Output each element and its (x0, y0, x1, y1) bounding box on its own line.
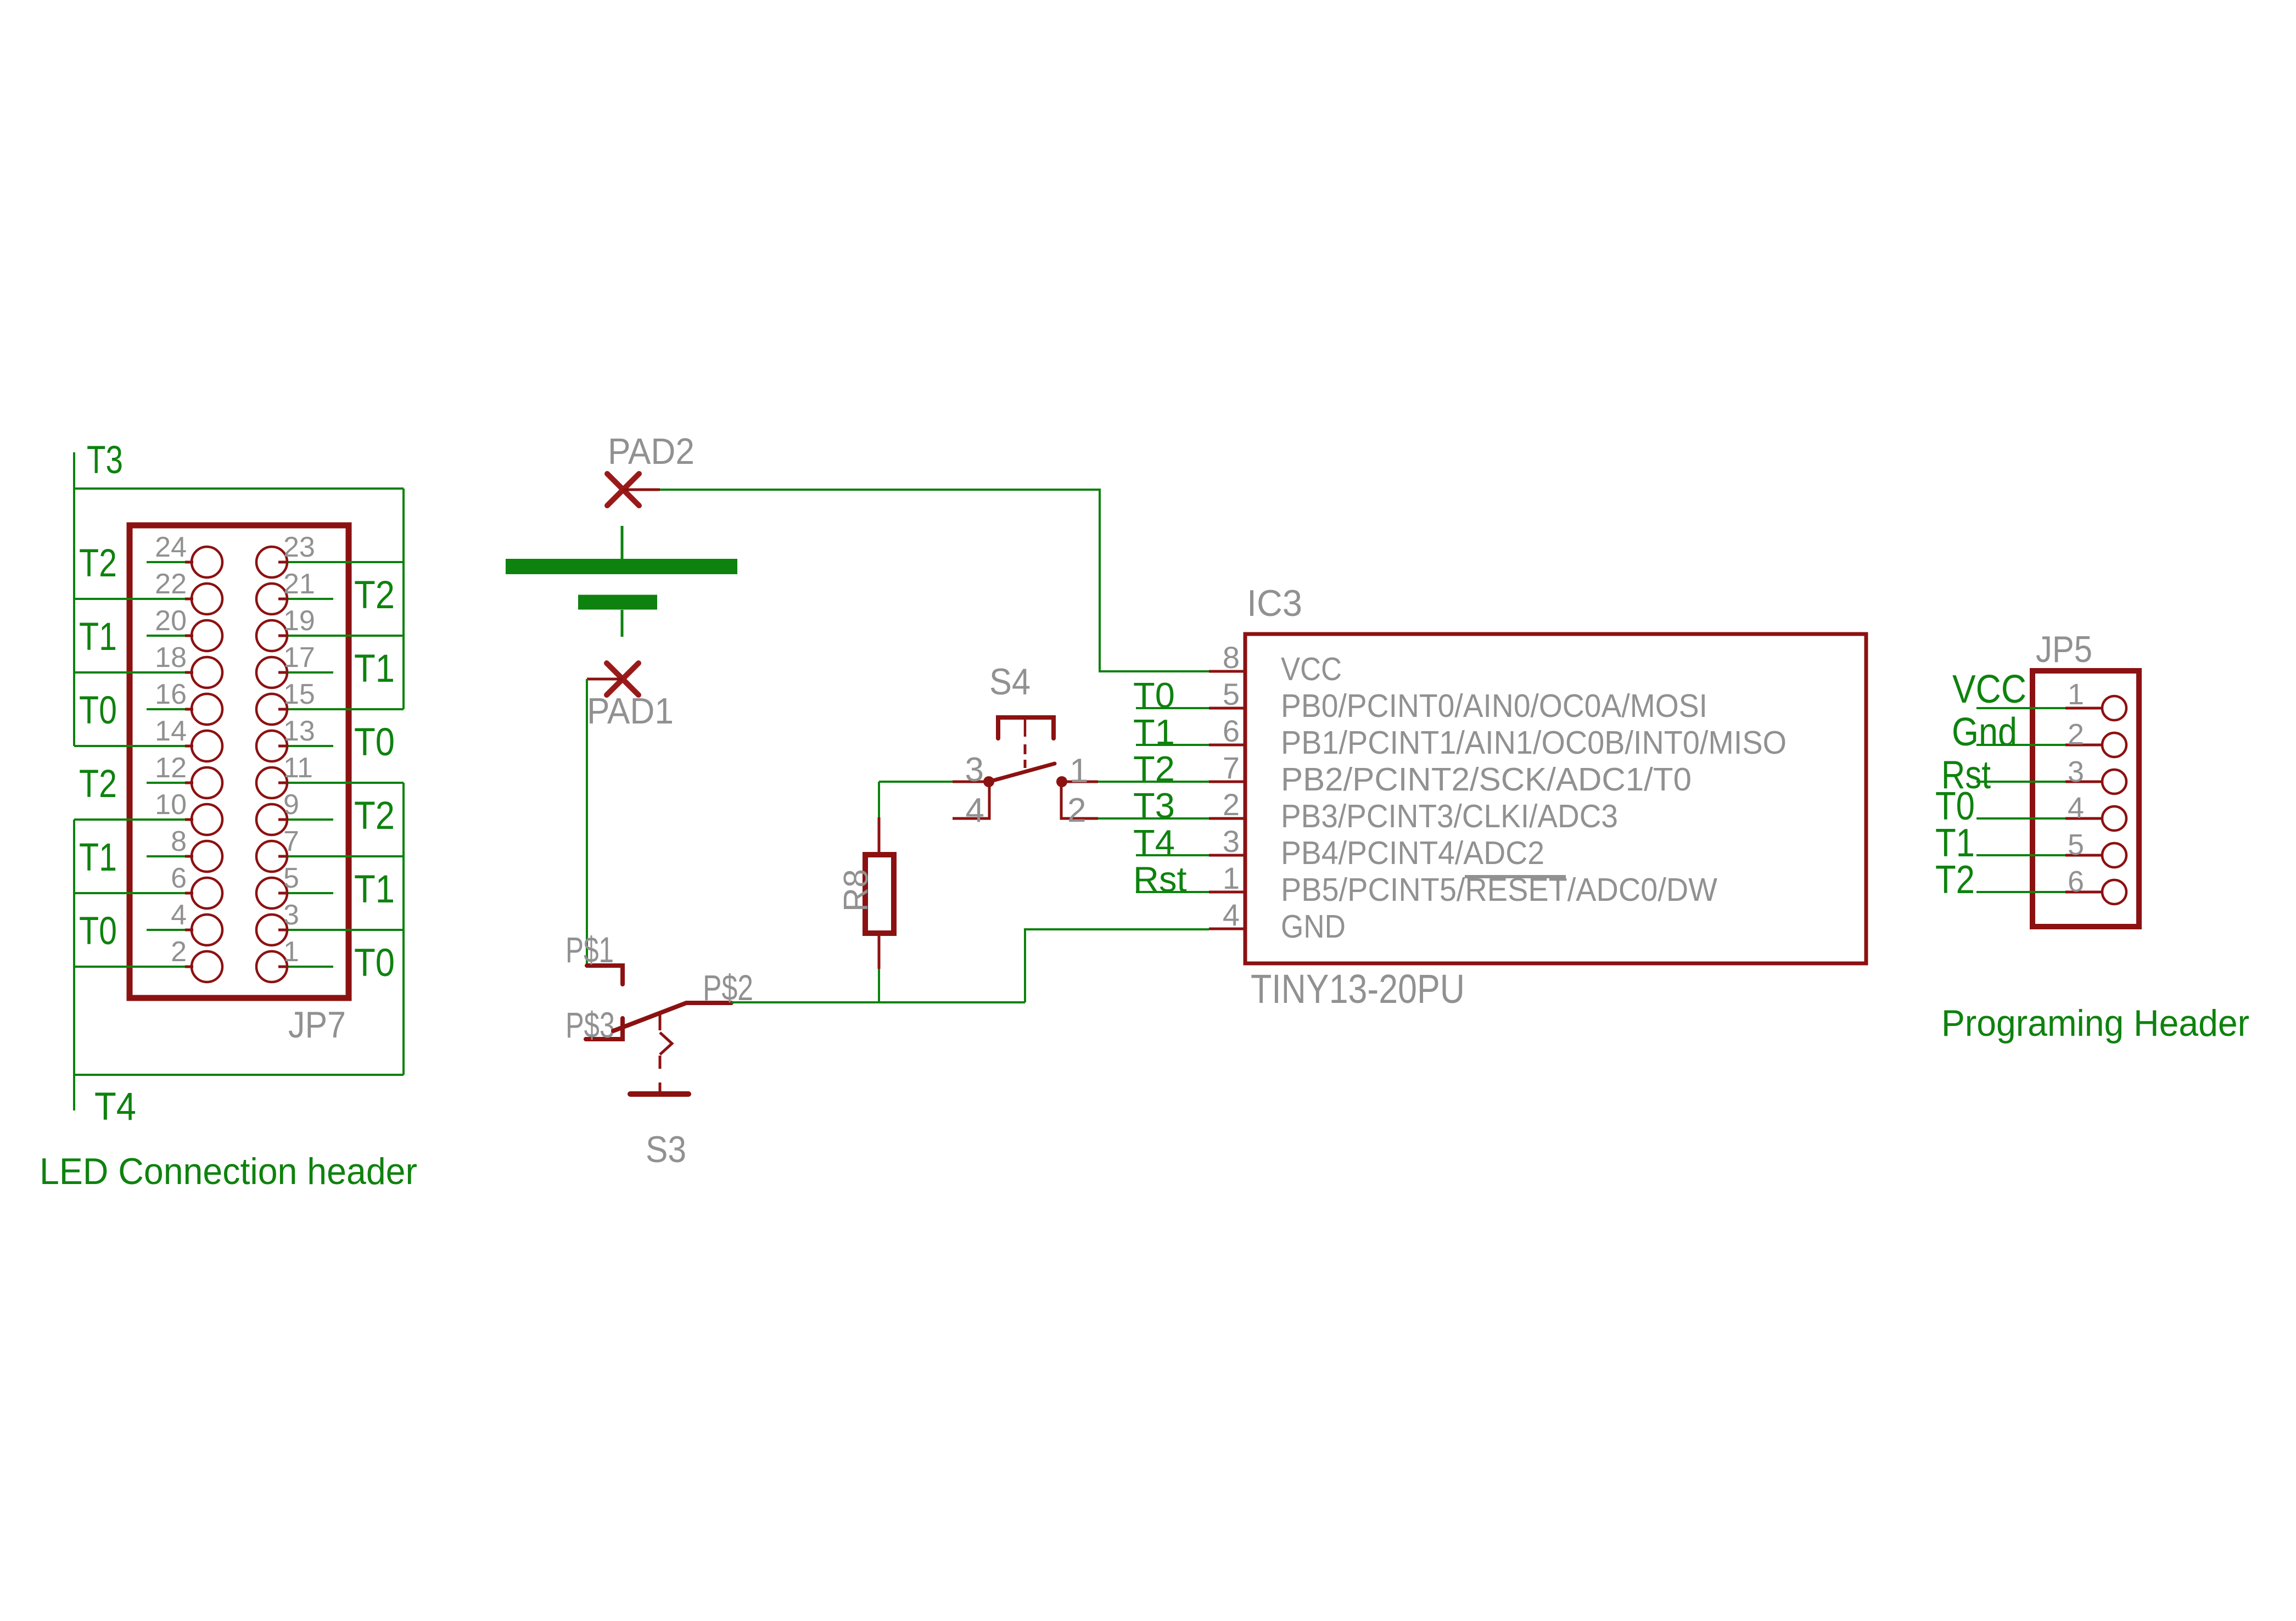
svg-text:1: 1 (283, 936, 299, 968)
svg-text:T2: T2 (354, 794, 395, 838)
battery B1 bottom lead (621, 610, 624, 637)
svg-text:4: 4 (171, 899, 187, 931)
node T1 label right (354, 868, 395, 911)
node VCC label (1952, 668, 2026, 711)
pin number 10 (155, 789, 187, 821)
pin 20 circle (192, 620, 222, 651)
pin number 2 (2068, 718, 2084, 751)
node T1 label (1133, 712, 1175, 752)
pin 3 lead (278, 929, 286, 932)
svg-text:T3: T3 (87, 439, 123, 482)
node T0 label left (79, 910, 117, 953)
node T0 label left (79, 689, 117, 732)
wire bottom horizontal T4 net (74, 1075, 404, 1110)
pin number 11 (283, 752, 313, 784)
svg-text:PB2/PCINT2/SCK/ADC1/T0: PB2/PCINT2/SCK/ADC1/T0 (1281, 761, 1692, 798)
wire P$2 to GND net (731, 1001, 1025, 1003)
node T1 label (1935, 821, 1975, 865)
pin number 3 (1223, 824, 1240, 859)
svg-text:1: 1 (1069, 752, 1088, 790)
wire (74, 745, 185, 747)
pin 11 lead (278, 782, 286, 784)
svg-text:T4: T4 (1133, 822, 1175, 862)
wire (286, 708, 404, 710)
svg-text:T1: T1 (1133, 712, 1175, 752)
resistor R8 top lead (878, 817, 881, 857)
connector JP5 pin 3 lead (2065, 781, 2103, 783)
svg-text:S3: S3 (646, 1129, 686, 1170)
svg-text:T1: T1 (354, 647, 395, 691)
wire T2 net S4 pin1 to IC3 pin 7 (1098, 781, 1209, 783)
wire stub (147, 782, 185, 784)
svg-text:18: 18 (155, 642, 187, 674)
switch S4 pivot node 3 (983, 776, 994, 787)
pin 7 lead (278, 855, 286, 858)
connector JP5 pin 1 lead (2065, 707, 2103, 710)
connector JP5 pin 6 circle (2102, 880, 2126, 904)
svg-text:16: 16 (155, 678, 187, 710)
label IC3 (1247, 582, 1302, 624)
svg-text:20: 20 (155, 605, 187, 637)
wire (286, 635, 404, 637)
pin number 15 (283, 678, 315, 710)
svg-text:S4: S4 (989, 661, 1031, 703)
wire (286, 929, 404, 931)
RESET overline (1465, 875, 1566, 878)
svg-text:13: 13 (283, 715, 315, 747)
wire (286, 782, 404, 784)
svg-text:LED Connection header: LED Connection header (40, 1151, 417, 1192)
node T0 label right (354, 941, 395, 985)
pin 15 lead (278, 708, 286, 711)
pin number 16 (155, 678, 187, 710)
pin number 5 (2068, 828, 2084, 861)
svg-text:10: 10 (155, 789, 187, 821)
connector JP5 pin 2 circle (2102, 733, 2126, 757)
wire T1 net (1976, 854, 2065, 856)
pin number 1 (283, 936, 299, 968)
pin number 5 (283, 862, 299, 894)
pin 21 circle (256, 584, 287, 614)
label S4 (989, 661, 1031, 703)
svg-text:PB0/PCINT0/AIN0/OC0A/MOSI: PB0/PCINT0/AIN0/OC0A/MOSI (1281, 688, 1707, 724)
wire stub (286, 966, 333, 968)
wire right lower bus (402, 783, 405, 1075)
pin number 2 (171, 936, 187, 968)
wire (74, 671, 185, 674)
pin 17 lead (278, 671, 286, 674)
pin 12 circle (192, 767, 222, 798)
svg-text:GND: GND (1281, 908, 1346, 945)
wire T2 net (1976, 891, 2065, 893)
pin 9 lead (278, 818, 286, 821)
pin 22 circle (192, 584, 222, 614)
connector JP5 pin 5 circle (2102, 843, 2126, 867)
svg-text:T2: T2 (1935, 858, 1975, 902)
pin number 5 (1223, 677, 1240, 711)
pin 13 circle (256, 731, 287, 761)
wire stub (147, 855, 185, 857)
pin 14 lead (185, 745, 193, 748)
pin 10 lead (185, 818, 193, 821)
node T4 (94, 1085, 136, 1129)
svg-text:6: 6 (2068, 865, 2084, 898)
ic IC3 body (1245, 634, 1866, 963)
switch S3 pin P$3 lead (586, 1018, 623, 1039)
label P$3 (565, 1005, 615, 1045)
pin 19 circle (256, 620, 287, 651)
wire T1 net stub (1136, 744, 1209, 746)
svg-text:6: 6 (1223, 714, 1240, 748)
pin 18 lead (185, 671, 193, 674)
label R8 (837, 869, 875, 912)
switch S3 pin P$1 lead (587, 966, 623, 984)
pin number 4 (966, 792, 984, 829)
pin 9 circle (256, 804, 287, 835)
wire (74, 966, 185, 968)
svg-text:2: 2 (2068, 718, 2084, 751)
label JP7 (288, 1004, 346, 1046)
pin 19 lead (278, 635, 286, 637)
pin number 4 (2068, 792, 2084, 824)
node T0 label (1133, 675, 1175, 715)
pin 20 lead (185, 635, 193, 637)
pin number 20 (155, 605, 187, 637)
wire (74, 818, 185, 821)
pin 6 circle (192, 878, 222, 908)
svg-text:7: 7 (1223, 750, 1240, 785)
ic IC3 pin 7 lead (1209, 781, 1245, 783)
svg-text:23: 23 (283, 531, 315, 563)
pin number 19 (283, 605, 315, 637)
wire T0 net (1976, 817, 2065, 820)
svg-text:T1: T1 (79, 836, 117, 879)
pad PAD1 (607, 663, 639, 695)
pin 3 circle (256, 915, 287, 945)
svg-text:5: 5 (283, 862, 299, 894)
wire VCC net PAD2 to IC3 pin 8 (660, 490, 1209, 671)
svg-text:T4: T4 (94, 1085, 136, 1129)
pin 15 circle (256, 694, 287, 725)
switch S4 arm (989, 764, 1055, 782)
svg-text:PAD1: PAD1 (587, 691, 674, 732)
wire T0 net stub (1136, 707, 1209, 709)
wire stub (147, 635, 185, 637)
switch S3 base bar (630, 1091, 688, 1097)
svg-text:15: 15 (283, 678, 315, 710)
label P$1 (565, 929, 614, 970)
svg-text:TINY13-20PU: TINY13-20PU (1251, 966, 1465, 1012)
node Rst label (1941, 753, 1991, 797)
svg-text:2: 2 (1223, 787, 1240, 822)
svg-text:P$1: P$1 (565, 929, 614, 970)
pin number 9 (283, 789, 299, 821)
connector JP5 (2032, 671, 2139, 927)
wire stub (147, 708, 185, 710)
svg-text:4: 4 (966, 792, 984, 829)
ic IC3 pin 4 lead (1209, 928, 1245, 930)
pin number 2 (1067, 792, 1086, 829)
wire left lower bus (73, 820, 75, 1075)
pin 4 circle (192, 915, 222, 945)
svg-text:JP7: JP7 (288, 1004, 346, 1046)
wire Rst net stub (1136, 891, 1209, 893)
pin number 1 (1223, 861, 1240, 895)
pin number 6 (2068, 865, 2084, 898)
pin number 3 (2068, 755, 2084, 788)
node T2 label right (354, 794, 395, 838)
svg-text:T2: T2 (354, 574, 395, 617)
pin number 13 (283, 715, 315, 747)
pin number 3 (283, 899, 299, 931)
pin 12 lead (185, 782, 193, 784)
wire left upper bus (73, 489, 75, 746)
pad PAD2 (607, 474, 639, 506)
wire stub (286, 745, 333, 747)
pin 11 circle (256, 767, 287, 798)
node T0 label right (354, 721, 395, 764)
switch S3 actuator dashes (660, 1014, 672, 1094)
svg-text:Programing Header: Programing Header (1941, 1002, 2249, 1044)
pin 10 circle (192, 804, 222, 835)
svg-text:T2: T2 (1133, 749, 1175, 789)
svg-text:PB3/PCINT3/CLKI/ADC3: PB3/PCINT3/CLKI/ADC3 (1281, 798, 1618, 834)
battery B1 positive plate (506, 559, 737, 574)
pin number 7 (1223, 750, 1240, 785)
svg-text:3: 3 (1223, 824, 1240, 859)
pin number 3 (965, 751, 984, 789)
pin number 6 (171, 862, 187, 894)
node Rst label (1133, 859, 1187, 899)
svg-text:VCC: VCC (1952, 668, 2026, 711)
node T3 label (1133, 786, 1175, 826)
node T1 label left (79, 836, 117, 879)
svg-text:T0: T0 (354, 941, 395, 985)
svg-text:T0: T0 (1133, 675, 1175, 715)
label LED Connection header (40, 1151, 417, 1192)
wire VCC net (1976, 707, 2065, 709)
pin number 1 (1069, 752, 1088, 790)
wire T4 net stub (1136, 854, 1209, 856)
connector JP5 pin 2 lead (2065, 744, 2103, 747)
ic IC3 pin 3 lead (1209, 854, 1245, 857)
connector JP5 pin 1 circle (2102, 696, 2126, 720)
pin number 4 (1223, 898, 1240, 932)
svg-text:Gnd: Gnd (1952, 710, 2017, 754)
pin 8 circle (192, 841, 222, 872)
pin 8 lead (185, 855, 193, 858)
switch S4 pin 1 lead (1065, 781, 1098, 783)
wire T3 net S4 pin2 to IC3 pin 2 (1098, 817, 1209, 820)
label Programing Header (1941, 1002, 2249, 1044)
pin number 17 (283, 642, 315, 674)
svg-text:3: 3 (283, 899, 299, 931)
wire (286, 561, 404, 563)
pin number 12 (155, 752, 187, 784)
pin name PB3/PCINT3/CLKI/ADC3 (1281, 798, 1618, 834)
svg-text:T0: T0 (79, 689, 117, 732)
switch S4 pin 3 lead (953, 781, 985, 783)
switch S4 pin 2 lead (1061, 785, 1098, 818)
pin name GND (1281, 908, 1346, 945)
svg-text:PAD2: PAD2 (608, 431, 695, 472)
pin 4 lead (185, 929, 193, 932)
svg-text:11: 11 (283, 752, 313, 784)
pin 17 circle (256, 657, 287, 688)
connector JP7 (130, 525, 349, 998)
node T0 label (1935, 784, 1975, 828)
wire (74, 892, 185, 894)
pin 1 circle (256, 951, 287, 982)
pin 5 lead (278, 892, 286, 895)
svg-text:PB4/PCINT4/ADC2: PB4/PCINT4/ADC2 (1281, 835, 1544, 871)
pin number 24 (155, 531, 187, 563)
svg-text:7: 7 (283, 826, 299, 857)
pin number 21 (283, 568, 315, 600)
svg-text:4: 4 (1223, 898, 1240, 932)
svg-text:T0: T0 (79, 910, 117, 953)
wire R8 to GND net (878, 969, 880, 1003)
switch S4 button bracket (998, 717, 1054, 738)
label S3 (646, 1129, 686, 1170)
svg-text:T0: T0 (354, 721, 395, 764)
svg-text:8: 8 (171, 826, 187, 857)
pin name PB2/PCINT2/SCK/ADC1/T0 (1281, 761, 1692, 798)
pin number 18 (155, 642, 187, 674)
pin 18 circle (192, 657, 222, 688)
wire right upper bus (402, 489, 405, 709)
svg-text:12: 12 (155, 752, 187, 784)
svg-text:T2: T2 (79, 542, 117, 585)
svg-text:21: 21 (283, 568, 315, 600)
pin 2 lead (185, 966, 193, 968)
node T1 label right (354, 647, 395, 691)
resistor R8 bottom lead (878, 930, 881, 969)
battery B1 negative plate (578, 595, 657, 610)
wire Gnd net (1976, 744, 2065, 746)
pin number 2 (1223, 787, 1240, 822)
wire stub (286, 892, 333, 894)
pin number 8 (171, 826, 187, 857)
pin name PB0/PCINT0/AIN0/OC0A/MOSI (1281, 688, 1707, 724)
node T2 label left (79, 762, 117, 806)
label PAD1 (587, 691, 674, 732)
wire stub (286, 671, 333, 674)
pin number 14 (155, 715, 187, 747)
resistor R8 (865, 855, 894, 933)
wire S4 pin 3 to R8 net (879, 781, 953, 783)
svg-text:1: 1 (1223, 861, 1240, 895)
switch S4 actuator dashes (1024, 744, 1027, 768)
wire PAD1 to S3 P$1 (586, 679, 588, 966)
switch S4 pin 4 lead (953, 785, 989, 818)
svg-text:8: 8 (1223, 640, 1240, 675)
switch S4 pivot node 1 (1056, 776, 1067, 787)
pad PAD2 lead (623, 489, 660, 491)
svg-text:T3: T3 (1133, 786, 1175, 826)
node Gnd label (1952, 710, 2017, 754)
wire T3 net top horizontal (74, 452, 404, 489)
label JP5 (2036, 629, 2092, 670)
pin 16 lead (185, 708, 193, 711)
pin 23 circle (256, 547, 287, 577)
svg-text:T2: T2 (79, 762, 117, 806)
svg-text:5: 5 (2068, 828, 2084, 861)
connector JP5 pin 5 lead (2065, 854, 2103, 857)
pin name PB1/PCINT1/AIN1/OC0B/INT0/MISO (1281, 725, 1787, 761)
pin 14 circle (192, 731, 222, 761)
pin 22 lead (185, 598, 193, 601)
svg-text:2: 2 (171, 936, 187, 968)
svg-text:IC3: IC3 (1247, 582, 1302, 624)
pin 5 circle (256, 878, 287, 908)
svg-text:1: 1 (2068, 678, 2084, 711)
svg-text:19: 19 (283, 605, 315, 637)
connector JP5 pin 6 lead (2065, 891, 2103, 894)
svg-text:JP5: JP5 (2036, 629, 2092, 670)
svg-text:Rst: Rst (1133, 859, 1187, 899)
pin 6 lead (185, 892, 193, 895)
svg-text:3: 3 (2068, 755, 2084, 788)
svg-text:6: 6 (171, 862, 187, 894)
wire Rst net (1976, 781, 2065, 783)
pin 21 lead (278, 598, 286, 601)
node T2 label (1935, 858, 1975, 902)
svg-text:T1: T1 (79, 615, 117, 659)
node T3 (87, 439, 123, 482)
pin name PB5/PCINT5/RESET/ADC0/DW (1281, 872, 1717, 908)
pin 7 circle (256, 841, 287, 872)
wire S4 pin3 to R8 (878, 782, 880, 820)
label P$2 (703, 967, 753, 1008)
wire stub (286, 818, 333, 821)
pin number 1 (2068, 678, 2084, 711)
pin number 22 (155, 568, 187, 600)
switch S3 arm (613, 1003, 731, 1031)
wire stub (147, 561, 185, 563)
pin name VCC (1281, 651, 1342, 687)
svg-text:R8: R8 (837, 869, 875, 912)
pin number 8 (1223, 640, 1240, 675)
node T2 label left (79, 542, 117, 585)
pin 13 lead (278, 745, 286, 748)
pin 23 lead (278, 561, 286, 564)
svg-text:22: 22 (155, 568, 187, 600)
pin 1 lead (278, 966, 286, 968)
pin number 6 (1223, 714, 1240, 748)
pad PAD1 lead (587, 678, 623, 681)
pin number 7 (283, 826, 299, 857)
pin 24 lead (185, 561, 193, 564)
svg-text:14: 14 (155, 715, 187, 747)
connector JP5 pin 4 circle (2102, 806, 2126, 831)
pin 24 circle (192, 547, 222, 577)
svg-text:9: 9 (283, 789, 299, 821)
ic IC3 pin 6 lead (1209, 744, 1245, 747)
ic IC3 pin 5 lead (1209, 707, 1245, 710)
wire GND net riser (1025, 929, 1209, 1002)
ic IC3 pin 8 lead (1209, 670, 1245, 673)
label PAD2 (608, 431, 695, 472)
pin name PB4/PCINT4/ADC2 (1281, 835, 1544, 871)
ic IC3 pin 1 lead (1209, 891, 1245, 894)
node T1 label left (79, 615, 117, 659)
svg-text:5: 5 (1223, 677, 1240, 711)
wire (74, 598, 185, 600)
connector JP5 pin 4 lead (2065, 817, 2103, 820)
svg-text:24: 24 (155, 531, 187, 563)
svg-text:P$3: P$3 (565, 1005, 615, 1045)
